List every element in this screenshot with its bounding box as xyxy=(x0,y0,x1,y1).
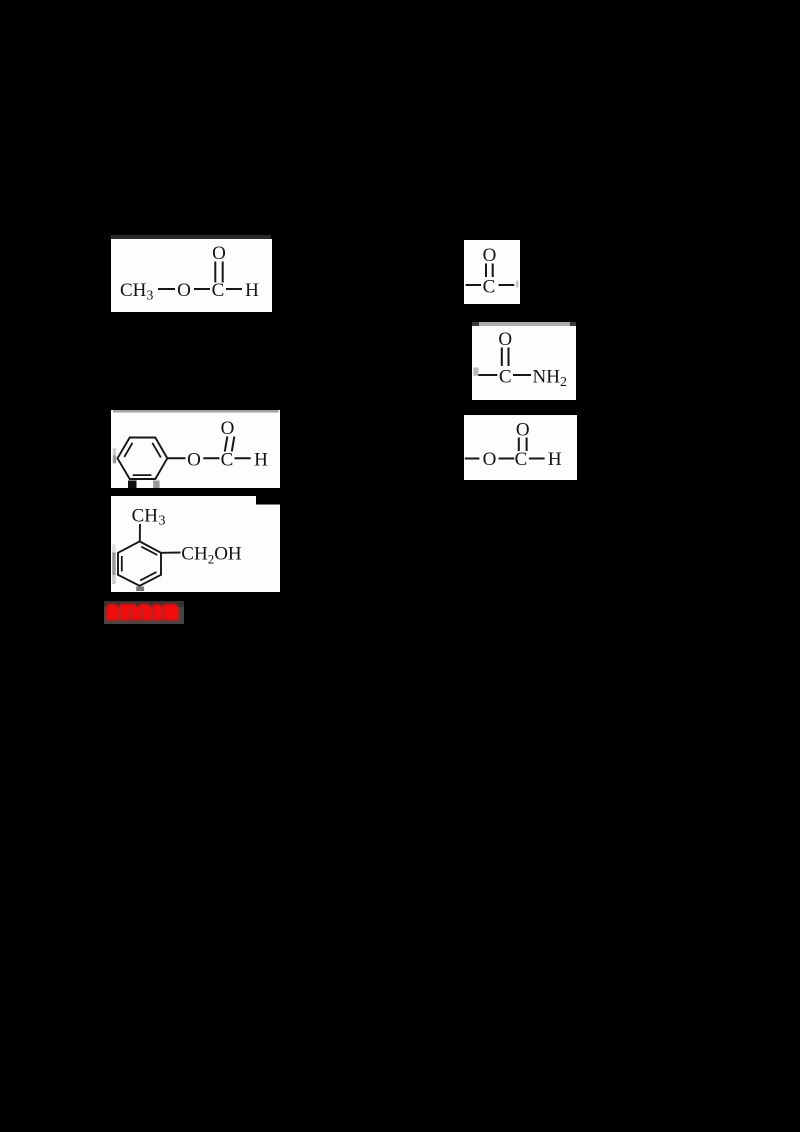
bond left xyxy=(478,374,498,376)
benzene inner double bond upper-right xyxy=(152,443,161,458)
red stroke fragments top row xyxy=(107,604,117,609)
svg-text:O: O xyxy=(212,243,226,264)
bond C-H xyxy=(226,288,242,290)
svg-text:C: C xyxy=(212,280,225,301)
benzene inner double bond upper-right xyxy=(141,547,157,555)
bond C-H xyxy=(235,457,251,459)
border strip above box C xyxy=(472,322,576,327)
box A: methyl formate CH3-O-CO-H xyxy=(111,239,272,312)
bond CH3-O xyxy=(158,288,175,290)
svg-text:O: O xyxy=(177,280,191,301)
svg-text:O: O xyxy=(498,329,512,350)
svg-text:O: O xyxy=(483,449,497,470)
red glyph blobs main row xyxy=(106,607,119,621)
svg-text:O: O xyxy=(483,245,497,266)
gray artifact speck xyxy=(516,281,519,288)
bond O-C xyxy=(203,457,219,459)
svg-text:O: O xyxy=(187,450,201,471)
dark strip above box A xyxy=(111,235,271,239)
benzene ring xyxy=(118,541,161,585)
box C: amide fragment -C(=O)-NH2 xyxy=(472,326,576,400)
top border line xyxy=(113,410,279,413)
gray artifact bars at left edge xyxy=(112,545,116,553)
svg-text:C: C xyxy=(221,450,234,471)
svg-text:C: C xyxy=(515,449,528,470)
red caption blurred text marks xyxy=(104,601,185,624)
bond ring-CH2OH xyxy=(161,552,181,554)
double bond C=O xyxy=(485,264,487,278)
box F: 2-methylbenzyl alcohol xyxy=(111,496,280,592)
bond left xyxy=(465,458,480,460)
gray artifact bars at left edge xyxy=(113,448,116,455)
red caption block background xyxy=(104,601,185,624)
box D: phenyl formate C6H5-O-CO-H xyxy=(111,410,280,488)
benzene inner double bond lower-right xyxy=(140,572,156,580)
double bond C=O xyxy=(214,262,216,283)
double bond C=O xyxy=(501,348,503,367)
bond C-H xyxy=(529,458,545,460)
gray artifact blob under ring xyxy=(136,587,144,592)
box B: acyl fragment -C(=O)- xyxy=(464,240,520,304)
bond C-N xyxy=(513,374,531,376)
double bond C=O xyxy=(518,438,520,452)
bond O-C xyxy=(499,458,515,460)
benzene inner double bond bottom xyxy=(133,474,152,476)
black notch top-right corner xyxy=(256,496,280,505)
svg-text:H: H xyxy=(548,449,562,470)
black artifact blob under ring xyxy=(128,481,137,489)
svg-text:O: O xyxy=(221,418,235,439)
svg-text:H: H xyxy=(254,450,268,471)
bond right xyxy=(499,284,515,286)
slanted double bond C=O xyxy=(225,437,228,452)
benzene inner double bond upper-left xyxy=(124,443,132,457)
svg-text:O: O xyxy=(516,420,530,441)
benzene ring xyxy=(118,438,168,480)
svg-text:H: H xyxy=(245,280,259,301)
bond ring-O xyxy=(167,457,185,459)
svg-text:C: C xyxy=(483,277,496,298)
bond left xyxy=(466,284,481,286)
gray artifact speck xyxy=(473,368,478,376)
bond O-C xyxy=(194,288,210,290)
gray artifact blob under ring xyxy=(153,481,160,489)
benzene inner double bond left xyxy=(121,556,123,572)
bond CH3-ring xyxy=(139,524,141,541)
box E: formate ester fragment -O-CO-H xyxy=(464,415,577,480)
svg-text:C: C xyxy=(499,367,512,388)
